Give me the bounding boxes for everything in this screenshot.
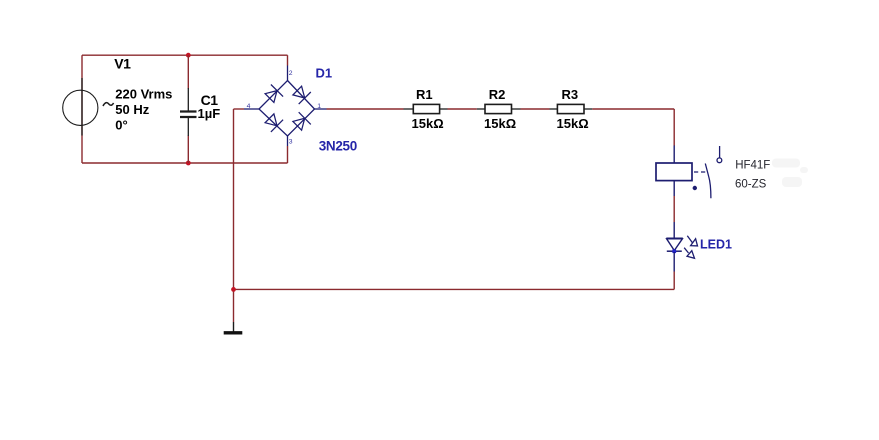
- resistor R2: [477, 104, 521, 113]
- bridge D1 diamond: [259, 81, 315, 137]
- wire right vertical to relay coil: [673, 109, 675, 146]
- relay coil pin bottom: [673, 181, 675, 196]
- wire left rail V1: [81, 55, 83, 163]
- wire bottom of source loop: [82, 162, 288, 164]
- wire R3 to right corner: [592, 108, 674, 110]
- wire bridge pin3 down to bottom loop: [287, 146, 289, 163]
- relay contact terminal top: [719, 146, 721, 158]
- wire cap branch bottom: [187, 136, 189, 164]
- capacitor C1 lead top: [187, 88, 189, 111]
- svg-text:2: 2: [289, 70, 293, 77]
- wire left vertical down to ground rail: [233, 109, 235, 289]
- svg-text:1: 1: [317, 103, 321, 110]
- junction dot ground rail: [231, 287, 236, 292]
- diode top-right: [293, 86, 311, 104]
- diode top-left: [265, 85, 283, 103]
- wire relay coil to LED: [673, 196, 675, 222]
- resistor R1: [404, 104, 448, 113]
- bridge pin 3 stub: [287, 136, 289, 146]
- capacitor C1 plate bottom: [180, 116, 197, 118]
- svg-text:LED1: LED1: [700, 238, 732, 252]
- LED anode bar: [666, 237, 683, 239]
- svg-text:15kΩ: 15kΩ: [412, 116, 444, 131]
- svg-text:HF41F: HF41F: [735, 159, 770, 171]
- svg-text:V1: V1: [114, 56, 131, 72]
- resistor R3: [550, 104, 593, 113]
- svg-text:3: 3: [289, 139, 293, 146]
- LED triangle: [667, 239, 683, 251]
- wire bottom long rail: [234, 288, 675, 290]
- relay contact dot: [693, 186, 697, 190]
- LED junction square: [672, 249, 676, 253]
- diode bottom-left: [265, 114, 283, 132]
- svg-text:15kΩ: 15kΩ: [557, 116, 589, 131]
- svg-text:60-ZS: 60-ZS: [735, 179, 767, 191]
- AC source V1 circle: [63, 90, 98, 125]
- wire R2 to R3: [521, 108, 550, 110]
- bridge pin 4 stub: [244, 108, 259, 110]
- svg-text:0°: 0°: [115, 118, 127, 133]
- svg-text:50 Hz: 50 Hz: [115, 102, 149, 117]
- svg-text:R1: R1: [416, 87, 433, 102]
- svg-text:3N250: 3N250: [319, 138, 357, 153]
- relay contact terminal circle: [717, 158, 722, 163]
- wire top rail V1 to bridge pin 2: [82, 54, 288, 56]
- ground bar: [224, 331, 243, 334]
- wire cap branch top: [187, 55, 189, 88]
- junction dot cap bottom: [186, 161, 191, 166]
- ground lead black: [233, 322, 235, 332]
- wire ground stub: [233, 289, 235, 322]
- wire R1 to R2: [448, 108, 477, 110]
- AC source tilde: [103, 103, 114, 106]
- bridge pin 1 stub: [315, 108, 327, 110]
- LED cathode bar: [667, 250, 682, 252]
- wire bridge pin1 to R1: [327, 108, 404, 110]
- diode bottom-right: [293, 112, 311, 130]
- svg-text:R2: R2: [489, 87, 506, 102]
- LED pin bottom: [673, 252, 675, 272]
- relay contact blade: [705, 164, 711, 199]
- capacitor C1 lead bottom: [187, 118, 189, 136]
- wire bridge pin4 to down rail: [234, 108, 245, 110]
- LED pin top: [673, 222, 675, 238]
- svg-text:D1: D1: [316, 65, 333, 80]
- svg-text:R3: R3: [562, 87, 579, 102]
- relay coil pin top: [673, 146, 675, 164]
- svg-text:1µF: 1µF: [198, 106, 221, 121]
- svg-text:15kΩ: 15kΩ: [484, 116, 516, 131]
- capacitor C1 plate top: [180, 110, 197, 112]
- AC source V1 lead: [81, 78, 83, 136]
- LED arrow 1: [687, 236, 697, 246]
- junction dot cap top: [186, 53, 191, 58]
- wire LED to bottom rail: [673, 272, 675, 290]
- svg-text:220 Vrms: 220 Vrms: [115, 86, 172, 101]
- smudge artifacts near relay label: [772, 159, 808, 188]
- relay dashed link: [694, 171, 706, 173]
- svg-text:4: 4: [247, 103, 251, 110]
- LED arrow 2: [684, 248, 694, 259]
- wire bridge pin2 stub: [287, 55, 289, 65]
- relay coil K1: [656, 163, 692, 181]
- bridge pin 2 stub: [287, 66, 289, 81]
